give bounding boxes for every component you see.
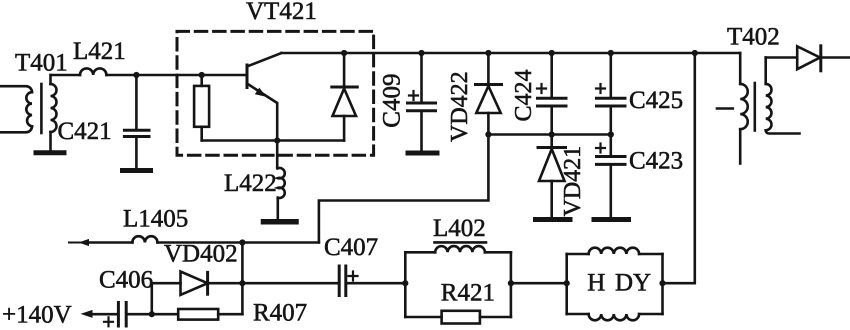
diode VD422: [476, 53, 502, 135]
svg-text:VD421: VD421: [560, 146, 586, 217]
node (rail at C425): [608, 50, 614, 56]
transformer T401: [0, 75, 57, 151]
node (rail at riser): [692, 50, 698, 56]
svg-text:L421: L421: [73, 38, 126, 65]
+140V input arrow: [81, 310, 118, 318]
node (H DY right): [659, 280, 665, 286]
node (C425 bottom junction): [608, 131, 614, 137]
node (VD422 anode junction): [485, 131, 491, 137]
svg-text:VT421: VT421: [246, 0, 317, 25]
node (L402 block right): [508, 280, 514, 286]
diode (EHT rectifier): [797, 46, 850, 71]
node (VD402/R407 right junction): [239, 280, 245, 286]
node (rail at VD422): [485, 50, 491, 56]
inductor L1405 with arrow out: [69, 236, 319, 246]
svg-text:VD402: VD402: [164, 241, 238, 268]
wire (VD422 anode dropper): [319, 135, 489, 243]
node (rail at C409): [418, 50, 424, 56]
node (bias resistor tap): [199, 72, 205, 78]
svg-text:T402: T402: [727, 24, 780, 51]
svg-text:L1405: L1405: [123, 206, 188, 233]
wire (base feed): [136, 74, 245, 77]
inductor L421: [51, 68, 136, 75]
capacitor C424: [537, 53, 566, 135]
node (C424 bottom junction): [549, 131, 555, 137]
ground (C423): [594, 217, 629, 222]
resistor R407: [152, 283, 243, 319]
svg-text:L422: L422: [224, 170, 277, 197]
wire (resistor to emitter node): [202, 139, 278, 142]
capacitor C425: [596, 53, 625, 135]
node (rail at C424): [549, 50, 555, 56]
resistor (base-emitter, inside VT421): [194, 75, 209, 141]
dashed module box VT421: [177, 31, 374, 155]
transformer T402: [717, 53, 800, 164]
svg-text:+140V: +140V: [2, 302, 72, 329]
diode (damper, inside VT421): [332, 53, 358, 141]
inductor L402 (parallel block top): [405, 246, 511, 317]
svg-text:C421: C421: [58, 118, 112, 145]
node (collector rail at damper): [341, 50, 347, 56]
svg-text:C409: C409: [379, 74, 406, 128]
ground (C409): [408, 151, 437, 156]
inductor L422: [277, 141, 285, 220]
wire (collector rail): [281, 52, 740, 55]
wire (emitter node to damper anode): [277, 139, 344, 142]
capacitor C423: [596, 135, 625, 217]
svg-text:DY: DY: [615, 270, 651, 297]
capacitor C406: [104, 303, 152, 327]
svg-text:C407: C407: [324, 234, 378, 261]
svg-text:C423: C423: [629, 148, 683, 175]
wire (branch down to VD402 bus): [241, 243, 244, 284]
node (C407 / L402 block left): [402, 280, 408, 286]
wire (L402 block to H DY): [511, 282, 567, 285]
node (L1405 branch): [239, 239, 245, 245]
ground (L422): [264, 219, 297, 225]
wire (H DY up to rail): [663, 53, 695, 283]
diode VD421: [538, 135, 566, 217]
node A (L421 / C421 junction): [133, 72, 139, 78]
diode VD402: [152, 272, 243, 295]
svg-text:C425: C425: [629, 87, 683, 114]
capacitor C407: [242, 266, 405, 296]
ground (C421): [123, 168, 151, 173]
capacitor C421: [124, 75, 149, 168]
svg-text:C406: C406: [99, 267, 153, 294]
node (emitter junction): [274, 137, 280, 143]
wire (mid junction bus): [488, 133, 610, 136]
capacitor C409: [408, 53, 436, 150]
ground (T401 secondary): [36, 150, 64, 155]
svg-text:R407: R407: [253, 300, 307, 327]
wire (VD402 left leg down): [151, 283, 154, 314]
node (C406/R407/VD402 junction): [149, 311, 155, 317]
svg-text:H: H: [587, 270, 605, 297]
resistor R421 (parallel block bottom): [405, 311, 511, 324]
svg-text:VD422: VD422: [447, 71, 473, 142]
transistor VT421: [247, 53, 281, 141]
svg-text:T401: T401: [15, 50, 68, 77]
deflection yoke H DY: [567, 248, 663, 321]
svg-text:C424: C424: [511, 69, 537, 121]
svg-text:R421: R421: [441, 280, 495, 307]
node (H DY left): [564, 280, 570, 286]
ground (VD421): [536, 217, 571, 222]
svg-text:L402: L402: [433, 215, 486, 242]
